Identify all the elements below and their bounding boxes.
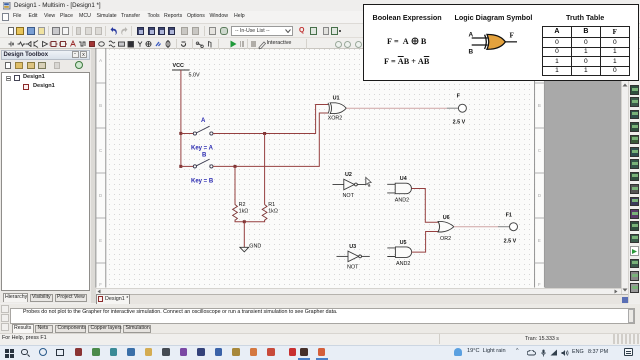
svg-text:B: B [538, 103, 541, 108]
svg-text:XOR2: XOR2 [328, 115, 343, 121]
sheet border right strip [535, 48, 545, 288]
junction node gnd tap [243, 220, 246, 223]
tree area [1, 72, 90, 291]
svg-text:F: F [99, 282, 102, 287]
svg-text:OR2: OR2 [440, 236, 451, 242]
svg-text:5.0V: 5.0V [189, 73, 200, 79]
svg-text:B: B [202, 153, 207, 159]
dotted grid [106, 49, 535, 288]
bottom spreadsheet panel [0, 304, 640, 334]
svg-text:Key = A: Key = A [191, 146, 214, 152]
svg-text:U6: U6 [443, 215, 450, 221]
gate U6 OR2 [438, 221, 440, 232]
overlay xor symbol [462, 26, 522, 58]
vertical scrollbar [621, 49, 628, 295]
overlay card [363, 4, 639, 81]
mouse cursor [366, 177, 372, 187]
svg-text:D: D [538, 193, 541, 198]
wire net B : switch B to XOR bottom input [213, 113, 328, 166]
wire U4 out to U6 [412, 188, 439, 222]
toolbar row 1 [0, 24, 640, 38]
overlay truth table [542, 26, 630, 76]
svg-text:F1: F1 [506, 213, 512, 219]
svg-text:R1: R1 [268, 202, 275, 208]
svg-text:F: F [510, 32, 515, 40]
probe F [458, 104, 466, 112]
junction node R1 tap [263, 132, 266, 135]
gate U2 NOT [333, 184, 344, 186]
svg-text:R2: R2 [239, 202, 246, 208]
root icon [14, 75, 20, 82]
gate U5 AND2 [387, 248, 395, 257]
horizontal scrollbar [96, 288, 622, 295]
svg-text:E: E [538, 238, 541, 243]
svg-text:AND2: AND2 [396, 261, 410, 267]
wire VCC to switches (left vertical) [180, 70, 182, 166]
status bar [0, 333, 640, 345]
wire resistor bottoms [235, 221, 265, 222]
svg-text:Key = B: Key = B [191, 179, 214, 185]
svg-text:U3: U3 [349, 244, 356, 250]
wire U1 output (probe F) [346, 107, 447, 109]
sheet border left strip [96, 48, 106, 288]
op gate U1 XOR2 [328, 103, 329, 114]
bottom tabs [12, 324, 34, 333]
svg-text:GND: GND [249, 243, 261, 249]
svg-text:U2: U2 [345, 172, 352, 178]
wire R2 vertical [234, 166, 236, 204]
node junction at switch A [179, 132, 182, 135]
title bar [0, 0, 640, 11]
svg-text:2.5 V: 2.5 V [453, 119, 466, 125]
taskbar [0, 345, 640, 360]
instruments toolbar [628, 49, 640, 304]
document tab row [96, 294, 629, 304]
child icon [23, 84, 29, 91]
power VCC V1 [172, 69, 190, 71]
svg-text:NOT: NOT [343, 193, 355, 199]
svg-text:F: F [538, 282, 541, 287]
gate U3 NOT [337, 255, 349, 257]
splitter [91, 49, 96, 304]
menu bar [0, 11, 640, 24]
junction node R2 tap [234, 165, 237, 168]
svg-text:E: E [99, 238, 102, 243]
gray outside area [545, 49, 621, 288]
gate U4 AND2 [387, 184, 395, 193]
svg-text:1kΩ: 1kΩ [239, 209, 249, 215]
toolbar row 2 [0, 38, 640, 49]
switch S2 (Key = B) [181, 165, 193, 167]
svg-text:C: C [99, 148, 102, 153]
node junction at switch B [179, 165, 182, 168]
svg-text:F: F [457, 93, 461, 99]
wire U6 output (probe F1) [454, 226, 498, 228]
svg-text:U5: U5 [400, 240, 407, 246]
wire to ground [243, 222, 245, 248]
circuit SVG [95, 48, 545, 288]
svg-text:A: A [99, 58, 102, 63]
svg-text:D: D [99, 193, 102, 198]
left panel [0, 49, 91, 304]
svg-text:B: B [469, 49, 474, 56]
svg-text:C: C [538, 148, 541, 153]
panel tabs [3, 293, 28, 302]
svg-text:U4: U4 [400, 176, 407, 182]
svg-text:A: A [201, 118, 206, 124]
svg-text:B: B [99, 103, 102, 108]
panel toolbar icons [5, 62, 12, 70]
svg-text:AND2: AND2 [395, 198, 409, 204]
svg-text:NOT: NOT [347, 264, 359, 270]
resistor R1 1k [262, 205, 267, 222]
probe F1 [510, 223, 518, 231]
switch S1 (Key = A) [181, 133, 193, 135]
wire R1 vertical [264, 134, 266, 205]
svg-text:2.5 V: 2.5 V [504, 238, 517, 244]
svg-text:U1: U1 [333, 95, 340, 101]
resistor R2 1k [233, 205, 238, 222]
wire net A : switch A to XOR top input [213, 105, 328, 134]
resize grip [612, 334, 640, 344]
svg-text:VCC: VCC [173, 63, 184, 69]
tree: expander [6, 76, 11, 81]
ground [240, 247, 249, 252]
svg-text:1kΩ: 1kΩ [268, 209, 278, 215]
wire U5 out to U6 [412, 232, 439, 253]
sheet area [96, 49, 546, 288]
